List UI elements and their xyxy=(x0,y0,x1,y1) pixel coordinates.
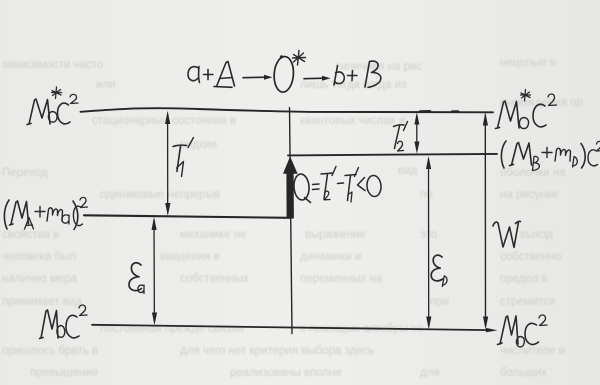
label epsilon_b : subscript b xyxy=(442,276,447,287)
svg-text:человека был: человека был xyxy=(2,251,76,263)
label T2' : subscript 2 xyxy=(398,141,404,151)
arrowhead eps_b down xyxy=(426,317,431,330)
label Q : prime of T2 xyxy=(332,167,336,176)
label Q : Q oval xyxy=(293,174,310,201)
label M0c2 bottom left : M xyxy=(40,310,59,339)
thick transition arrow Q head xyxy=(283,156,298,173)
svg-text:или: или xyxy=(96,79,116,91)
underline of A in title xyxy=(214,86,232,89)
svg-text:собственных: собственных xyxy=(180,273,249,285)
label (MB+mb)c2 : ) xyxy=(581,144,585,169)
label M0*c2 top left : M xyxy=(27,99,50,125)
svg-text:для чего нет критерия выбора з: для чего нет критерия выбора здесь xyxy=(180,345,374,357)
arrowhead W down xyxy=(483,317,488,330)
svg-text:квантовых числах и: квантовых числах и xyxy=(300,115,405,127)
label Q : subscript 2 of T2 xyxy=(324,191,330,200)
svg-text:свойства в: свойства в xyxy=(2,229,59,241)
label (MA+ma)c2 : m xyxy=(47,208,63,221)
label M0C2 bottom right : C xyxy=(525,323,539,344)
svg-text:выражение: выражение xyxy=(305,229,365,241)
label (MB+mb)c2 : m xyxy=(555,148,571,161)
svg-text:лишь тогда когда из: лишь тогда когда из xyxy=(300,79,406,91)
label Q : prime of T1 xyxy=(355,168,359,177)
title star over O xyxy=(293,51,306,66)
arrowhead title arrow 2 xyxy=(322,76,331,81)
label (MA+ma)c2 : ) xyxy=(73,201,78,230)
svg-text:одинаковые непрерыв: одинаковые непрерыв xyxy=(100,189,220,201)
label T1' : subscript 1 xyxy=(177,162,184,177)
arrowhead eps_b up xyxy=(426,156,431,169)
arrowhead title arrow 1 xyxy=(264,75,273,80)
pen dot at top of O in title xyxy=(280,55,283,58)
reaction arrow 1 in title xyxy=(243,76,267,79)
svg-text:нецелые в: нецелые в xyxy=(500,57,556,69)
reaction arrow 2 in title xyxy=(304,77,324,80)
label (MB+mb)c2 : subscript B xyxy=(533,156,540,170)
arrowheads (solid) xyxy=(152,75,498,333)
label T2' : T xyxy=(394,125,405,149)
svg-text:при: при xyxy=(430,296,449,308)
label T1' : T xyxy=(173,145,187,171)
title letter a xyxy=(188,67,200,83)
svg-text:динамики и: динамики и xyxy=(300,251,361,263)
label Q : subscript 1 of T1 xyxy=(348,192,352,202)
label Q : equals xyxy=(313,184,320,190)
svg-text:принимает вид: принимает вид xyxy=(2,296,82,308)
svg-text:налично мера: налично мера xyxy=(2,273,78,285)
label T2' : prime xyxy=(404,122,408,131)
label (MA+ma)c2 : M xyxy=(10,201,29,225)
label epsilon_a : epsilon xyxy=(129,263,142,291)
title letter B xyxy=(365,61,381,87)
label (MB+mb)c2 : ( xyxy=(501,141,506,168)
top energy level line M0*c2 xyxy=(81,108,494,112)
O compound nucleus oval in title xyxy=(273,56,295,93)
level line (MB+mb)c2 xyxy=(288,154,497,156)
svg-text:зависимости часто: зависимости часто xyxy=(2,59,103,71)
pen blobs on top line xyxy=(420,110,458,113)
label epsilon_a : subscript a xyxy=(138,285,144,294)
label M0*c2 top right : c xyxy=(533,104,546,127)
vertical line of arrow T1' xyxy=(167,114,169,213)
label M0c2 bottom left : superscript 2 xyxy=(79,305,87,316)
label (MA+ma)c2 : subscript A xyxy=(25,218,34,230)
svg-text:предел в: предел в xyxy=(500,273,548,285)
title plus 1 xyxy=(204,70,214,80)
bottom energy level line M0c2 xyxy=(92,325,489,330)
label Q : less-than xyxy=(358,178,366,191)
center vertical construction line xyxy=(290,108,293,334)
label (MB+mb)c2 : subscript b xyxy=(573,157,578,168)
title letter b xyxy=(334,66,344,86)
label W xyxy=(493,221,521,247)
label M0c2 bottom left : c xyxy=(66,315,79,338)
arrowhead eps_a down xyxy=(152,313,157,326)
label M0c2 bottom left : subscript o xyxy=(57,326,65,338)
label (MB+mb)c2 : M xyxy=(510,143,532,166)
label (MB+mb)c2 : + xyxy=(542,148,552,158)
label M0*c2 top left : subscript 0 xyxy=(48,112,57,123)
label Q : minus xyxy=(338,182,344,185)
title plus 2 xyxy=(348,71,358,81)
svg-text:превышение: превышение xyxy=(30,367,98,379)
svg-text:механике не: механике не xyxy=(180,229,246,241)
label Q : T1 xyxy=(345,175,356,201)
label (MA+ma)c2 : superscript 2 xyxy=(80,197,88,207)
arrowhead T2' down xyxy=(414,142,419,154)
label (MA+ma)c2 : c xyxy=(73,206,82,225)
label M0*c2 top left : c xyxy=(58,103,71,124)
vertical line of arrow T2' xyxy=(416,116,418,150)
svg-text:стационарные состояния в: стационарные состояния в xyxy=(92,115,236,127)
label M0*c2 top right : M xyxy=(496,101,520,129)
arrowhead bottom line right end xyxy=(486,328,498,332)
label (MB+mb)c2 : superscript 2 xyxy=(597,141,600,151)
svg-text:вид: вид xyxy=(398,165,418,177)
label M0*c2 top right : superscript 2 xyxy=(548,94,557,106)
label (MA+ma)c2 : + xyxy=(35,207,45,218)
svg-text:больших: больших xyxy=(500,367,547,379)
arrowhead T1' up xyxy=(165,111,170,124)
label M0*c2 top left : star xyxy=(52,87,62,99)
vertical line of arrow epsilon_a xyxy=(153,220,155,322)
svg-text:выход: выход xyxy=(520,229,553,241)
level line (MA+ma)c2 xyxy=(84,215,290,218)
arrowhead T2' up xyxy=(414,112,419,124)
arrowhead eps_a up xyxy=(152,217,157,230)
svg-text:вырождения пр: вырождения пр xyxy=(500,97,583,109)
label M0C2 bottom right : subscript 0 xyxy=(516,337,524,347)
label Q : Q tail xyxy=(305,198,311,203)
svg-text:реализованы вполне: реализованы вполне xyxy=(230,367,342,379)
svg-text:стремится: стремится xyxy=(500,296,555,308)
svg-text:на рисунке: на рисунке xyxy=(500,189,558,201)
svg-text:по: по xyxy=(420,189,433,201)
label (MA+ma)c2 : ( xyxy=(4,200,9,229)
label Q : T2 xyxy=(321,173,333,200)
title letter A xyxy=(217,62,235,87)
label M0*c2 top right : subscript 0 xyxy=(519,118,528,129)
svg-text:собственно: собственно xyxy=(500,251,561,263)
thick transition arrow Q shaft xyxy=(286,174,294,219)
label M0*c2 top right : star xyxy=(521,90,531,102)
svg-text:пришлось брать в: пришлось брать в xyxy=(2,345,98,357)
svg-text:для: для xyxy=(420,367,440,379)
vertical line of arrow epsilon_b xyxy=(428,159,430,326)
label M0C2 bottom right : M xyxy=(498,316,519,345)
label (MB+mb)c2 : c xyxy=(588,150,598,166)
svg-text:Переход: Переход xyxy=(2,167,48,179)
label Q : zero xyxy=(366,175,382,197)
arrowhead W up xyxy=(483,112,488,125)
label epsilon_b : epsilon xyxy=(431,255,442,281)
svg-text:переменных на: переменных на xyxy=(300,273,383,285)
label M0C2 bottom right : superscript 2 xyxy=(539,315,547,326)
label (MA+ma)c2 : subscript a xyxy=(62,215,69,224)
vertical line of arrow W xyxy=(484,115,486,326)
label T1' : prime xyxy=(188,138,194,148)
svg-text:введения в: введения в xyxy=(160,251,220,263)
label M0*c2 top left : superscript 2 xyxy=(70,94,78,103)
arrowhead T1' down xyxy=(165,203,170,216)
svg-text:числителе и: числителе и xyxy=(500,345,565,357)
